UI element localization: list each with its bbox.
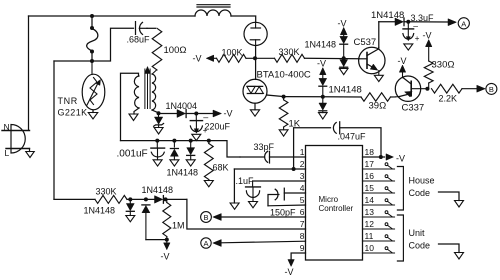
ground .1uF	[249, 202, 258, 208]
label 220uF	[205, 122, 231, 132]
capacitor .001uF	[151, 141, 165, 160]
wire N prong	[2, 130, 30, 132]
label 33pF	[254, 142, 275, 152]
label 1N4148 rail	[167, 168, 199, 178]
wire pin18	[363, 155, 385, 159]
arrow pin9 -V	[288, 260, 295, 267]
label Code1	[409, 188, 431, 198]
wire top rail	[29, 15, 196, 17]
label .1uF	[236, 176, 255, 186]
svg-text:-V: -V	[338, 19, 347, 29]
wire house gnd	[439, 192, 460, 201]
svg-text:330K: 330K	[96, 187, 117, 197]
diode D7 down	[187, 141, 195, 160]
svg-text:-V: -V	[285, 267, 294, 277]
switches house/unit	[363, 163, 395, 253]
svg-text:-V: -V	[317, 59, 326, 69]
svg-text:-V: -V	[398, 56, 407, 66]
svg-text:C337: C337	[402, 103, 425, 114]
svg-text:B: B	[203, 213, 208, 222]
zener D5	[154, 114, 164, 128]
resistor 1M	[163, 199, 171, 236]
svg-text:330K: 330K	[279, 47, 300, 57]
node fuse bottom	[90, 50, 94, 54]
svg-text:2.2K: 2.2K	[439, 94, 458, 104]
svg-text:-V: -V	[396, 154, 405, 164]
node rail d	[207, 139, 211, 143]
varistor TNR G221K	[82, 61, 105, 112]
node A left	[201, 238, 211, 248]
wire unit gnd	[439, 244, 460, 253]
capacitor 33pF	[240, 151, 306, 163]
label Code2	[409, 241, 431, 251]
ground C537	[374, 75, 383, 81]
svg-text:3: 3	[300, 171, 305, 181]
label 1M	[172, 221, 185, 231]
wire pin2	[234, 167, 305, 171]
svg-text:10: 10	[365, 243, 375, 253]
svg-text:1N4004: 1N4004	[166, 101, 198, 111]
label 150pF	[270, 208, 296, 218]
svg-text:4: 4	[300, 183, 305, 193]
wire fuse to rail	[91, 52, 93, 62]
resistor 2.2K	[432, 84, 479, 93]
svg-text:B: B	[489, 85, 494, 94]
label 1N4148 top	[371, 10, 404, 21]
svg-text:C537: C537	[354, 37, 377, 48]
arrow to A	[213, 240, 222, 247]
svg-text:33pF: 33pF	[254, 142, 275, 152]
wire C337 collector	[399, 65, 406, 78]
svg-text:16: 16	[365, 171, 375, 181]
node rail c	[189, 139, 193, 143]
label TNR	[58, 96, 78, 106]
fuse F1	[87, 29, 98, 52]
svg-text:+: +	[415, 34, 420, 43]
svg-text:1N4148: 1N4148	[167, 168, 199, 178]
svg-text:1M: 1M	[172, 221, 185, 231]
capacitor .1uF	[246, 181, 261, 202]
node B left	[201, 212, 212, 223]
node secondary out	[157, 111, 161, 115]
label 39ohm	[369, 101, 387, 112]
svg-text:8: 8	[300, 231, 305, 241]
ground 1K	[279, 130, 288, 136]
ground 220uF	[192, 134, 201, 140]
svg-text:Code: Code	[409, 241, 431, 251]
label 2.2K	[439, 94, 458, 104]
svg-text:Controller: Controller	[319, 204, 354, 213]
label .001uF	[117, 148, 148, 159]
wire transformer left	[121, 73, 139, 140]
svg-text:BTA10-400C: BTA10-400C	[257, 70, 311, 81]
wire to 330K	[54, 198, 95, 200]
arrow 1M -V	[164, 243, 171, 250]
label 1N4148 bl	[84, 206, 116, 216]
diode D10 right	[155, 196, 164, 204]
svg-text:1K: 1K	[289, 119, 301, 130]
arrow to B right	[477, 85, 486, 92]
label BTA10-400C	[257, 70, 311, 81]
wire bottom rail	[121, 141, 241, 157]
svg-text:17: 17	[365, 159, 375, 169]
wire 330K to diode	[127, 197, 155, 201]
svg-text:.68uF: .68uF	[127, 35, 151, 45]
wire cap to resistor	[147, 27, 156, 29]
label -V 100K	[193, 54, 202, 64]
ground clamp2	[319, 113, 328, 119]
label 1N4148 c2	[329, 85, 362, 96]
label -V 1M	[161, 252, 170, 262]
label -V mid	[224, 109, 233, 119]
capacitor .047uF loop	[294, 122, 381, 169]
wire pin3	[253, 180, 306, 182]
svg-text:1N4148: 1N4148	[142, 185, 174, 195]
label House	[409, 176, 435, 186]
ground plug	[26, 149, 35, 158]
node 220uF top	[194, 112, 198, 116]
IC U1 Micro Controller	[306, 146, 363, 261]
node varistor top	[90, 59, 94, 63]
svg-text:Unit: Unit	[409, 228, 426, 238]
ground D7	[186, 160, 195, 166]
triac BTA10-400C	[243, 79, 267, 103]
label 1N4148 bl2	[142, 185, 174, 195]
wire collector up	[378, 22, 380, 48]
ground 3.3uF	[404, 44, 413, 50]
wire pin5	[268, 204, 306, 207]
label -V pin9	[285, 267, 294, 277]
node rail b	[172, 139, 176, 143]
svg-text:7: 7	[300, 219, 305, 229]
svg-text:1: 1	[300, 147, 305, 157]
svg-text:9: 9	[300, 243, 305, 253]
svg-text:18: 18	[365, 147, 375, 157]
wire pin9	[291, 253, 305, 260]
label 3.3uF	[411, 13, 435, 23]
svg-text:5: 5	[300, 195, 305, 205]
svg-text:100Ω: 100Ω	[164, 45, 187, 56]
pin numbers	[300, 147, 374, 253]
svg-text:-V: -V	[423, 31, 432, 41]
wire triac bottom	[254, 103, 256, 110]
wire resistor to secondary	[152, 70, 156, 74]
svg-text:House: House	[409, 176, 435, 186]
svg-text:-V: -V	[161, 252, 170, 262]
node 3.3uF top	[406, 20, 410, 24]
wire secondary to diode	[159, 113, 178, 115]
svg-text:11: 11	[365, 231, 374, 241]
capacitor .68uF	[136, 22, 148, 35]
svg-text:.001uF: .001uF	[117, 148, 148, 159]
node B right	[486, 83, 497, 94]
ground transformer primary	[129, 114, 138, 121]
svg-text:–: –	[203, 112, 208, 122]
ground unit	[455, 253, 464, 260]
svg-text:1N4148: 1N4148	[305, 40, 337, 50]
wire 68K btm	[208, 180, 210, 181]
node clamp1	[342, 56, 346, 60]
ground triac	[250, 110, 259, 116]
label Unit	[409, 228, 426, 238]
label 330K bl	[96, 187, 117, 197]
svg-text:Micro: Micro	[319, 195, 339, 204]
diode D6 up	[170, 141, 178, 160]
label -V 330	[423, 31, 432, 41]
neon NE1	[244, 22, 267, 45]
wire pin2 gnd drop	[233, 169, 235, 203]
resistor 68K	[204, 141, 213, 180]
arrow to A right	[448, 19, 457, 26]
transistor C537	[359, 47, 385, 75]
svg-text:6: 6	[300, 207, 305, 217]
node osc junction	[253, 56, 257, 60]
svg-text:220uF: 220uF	[205, 122, 231, 132]
svg-text:Code: Code	[409, 188, 431, 198]
wire pin6 to B	[221, 216, 306, 218]
ground varistor	[88, 111, 98, 119]
ground D8	[126, 216, 135, 222]
svg-text:3.3uF: 3.3uF	[411, 13, 435, 23]
svg-text:1N4148: 1N4148	[84, 206, 116, 216]
arrow pin18 -V	[386, 154, 394, 161]
diode D11 chain	[340, 27, 348, 58]
label 1N4004	[166, 101, 198, 111]
transistor C337	[395, 76, 427, 101]
svg-text:L: L	[5, 148, 10, 158]
svg-text:100K: 100K	[222, 48, 243, 58]
diode 1N4148 top	[395, 18, 404, 26]
svg-text:1N4148: 1N4148	[329, 85, 362, 96]
diode D12 chain	[340, 58, 348, 68]
svg-text:2: 2	[300, 159, 305, 169]
wire diode to cap	[187, 113, 196, 115]
label 330K mid	[279, 47, 300, 57]
label 100ohm	[164, 45, 187, 56]
resistor 1K	[279, 97, 288, 130]
transformer core	[145, 67, 151, 109]
wire pin7	[187, 199, 306, 229]
svg-text:A: A	[461, 19, 466, 28]
ground house	[455, 201, 464, 208]
arrow 100K -V	[206, 55, 214, 62]
wire diode to A	[404, 21, 447, 23]
node A right	[458, 18, 469, 29]
svg-text:1N4148: 1N4148	[371, 10, 404, 21]
transformer primary	[134, 76, 139, 114]
wire left drop	[28, 16, 30, 130]
wire L prong	[6, 148, 30, 150]
arrow to B	[213, 214, 222, 221]
bracket unit	[397, 215, 403, 261]
arrow to -V mid	[213, 110, 222, 117]
label L	[5, 148, 10, 158]
plug P1 body	[11, 125, 25, 154]
svg-text:TNR: TNR	[58, 96, 78, 106]
diode D8 down	[126, 199, 134, 215]
label -V C337	[398, 56, 407, 66]
resistor 330K bl	[95, 195, 127, 203]
transformer secondary	[152, 74, 159, 113]
svg-text:A: A	[203, 239, 208, 248]
label .68uF	[127, 35, 151, 45]
label G221K	[58, 108, 88, 118]
diode D9 up	[142, 205, 150, 240]
svg-text:.047uF: .047uF	[338, 132, 367, 142]
svg-text:330Ω: 330Ω	[432, 60, 455, 71]
label C537	[354, 37, 377, 48]
capacitor 150pF	[268, 188, 284, 206]
node clamp2	[321, 95, 325, 99]
wire fuse stub	[90, 16, 94, 30]
wire to -V arrow	[196, 113, 213, 115]
wire left mid rail	[54, 28, 134, 61]
resistor 330K mid	[255, 54, 305, 62]
wire 330K to base	[305, 57, 360, 60]
diode D14	[319, 97, 327, 113]
label .047uF	[338, 132, 367, 142]
ground zener	[154, 128, 163, 135]
label 1K	[289, 119, 301, 130]
wire clamp2 to res	[323, 96, 361, 98]
svg-text:150pF: 150pF	[270, 208, 296, 218]
inductor L1	[195, 5, 231, 16]
capacitor 3.3uF	[403, 20, 420, 43]
node rail a	[155, 139, 159, 143]
svg-text:14: 14	[365, 195, 375, 205]
diode D13	[319, 68, 327, 97]
label 100K	[222, 48, 243, 58]
svg-text:15: 15	[365, 183, 375, 193]
label N	[4, 122, 10, 132]
wire neon to triac	[255, 45, 257, 79]
svg-text:39Ω: 39Ω	[369, 101, 387, 112]
ground clamp1	[339, 68, 348, 74]
wire left rail down	[53, 61, 55, 199]
wire collector rail	[379, 21, 395, 23]
label 68K	[213, 163, 229, 173]
wire pin8 to A	[221, 241, 306, 243]
wire pin4	[284, 192, 305, 194]
svg-text:-V: -V	[224, 109, 233, 119]
bracket house	[397, 167, 403, 211]
node C337 base	[425, 87, 429, 91]
wire inductor to neon	[231, 16, 256, 22]
label 1N4148 c1	[305, 40, 337, 50]
label -V clamp1	[338, 19, 347, 29]
ground pin2	[230, 203, 239, 209]
ground .001uF	[153, 160, 162, 166]
svg-text:12: 12	[365, 219, 375, 229]
resistor 39ohm	[361, 93, 395, 101]
diode 1N4004	[177, 110, 186, 118]
svg-text:13: 13	[365, 207, 375, 217]
svg-text:68K: 68K	[213, 163, 229, 173]
wire gate run	[284, 96, 323, 98]
resistor 330ohm	[424, 40, 433, 89]
node fuse top	[90, 14, 94, 18]
resistor 100K	[213, 54, 255, 62]
label C337	[402, 103, 425, 114]
label -V pin18	[396, 154, 405, 164]
label -V clamp2	[317, 59, 326, 69]
node 1M top	[164, 197, 168, 201]
capacitor 220uF	[190, 112, 208, 135]
wire 1M join	[146, 237, 169, 243]
svg-text:.1uF: .1uF	[236, 176, 255, 186]
wire triac gate	[267, 95, 284, 97]
node gate	[282, 95, 286, 99]
resistor 100ohm	[152, 28, 162, 70]
label 330ohm	[432, 60, 455, 71]
wire diode out	[164, 198, 187, 200]
ground 68K	[204, 181, 213, 187]
svg-text:G221K: G221K	[58, 108, 88, 118]
ground D6	[170, 160, 179, 166]
svg-text:-V: -V	[193, 54, 202, 64]
